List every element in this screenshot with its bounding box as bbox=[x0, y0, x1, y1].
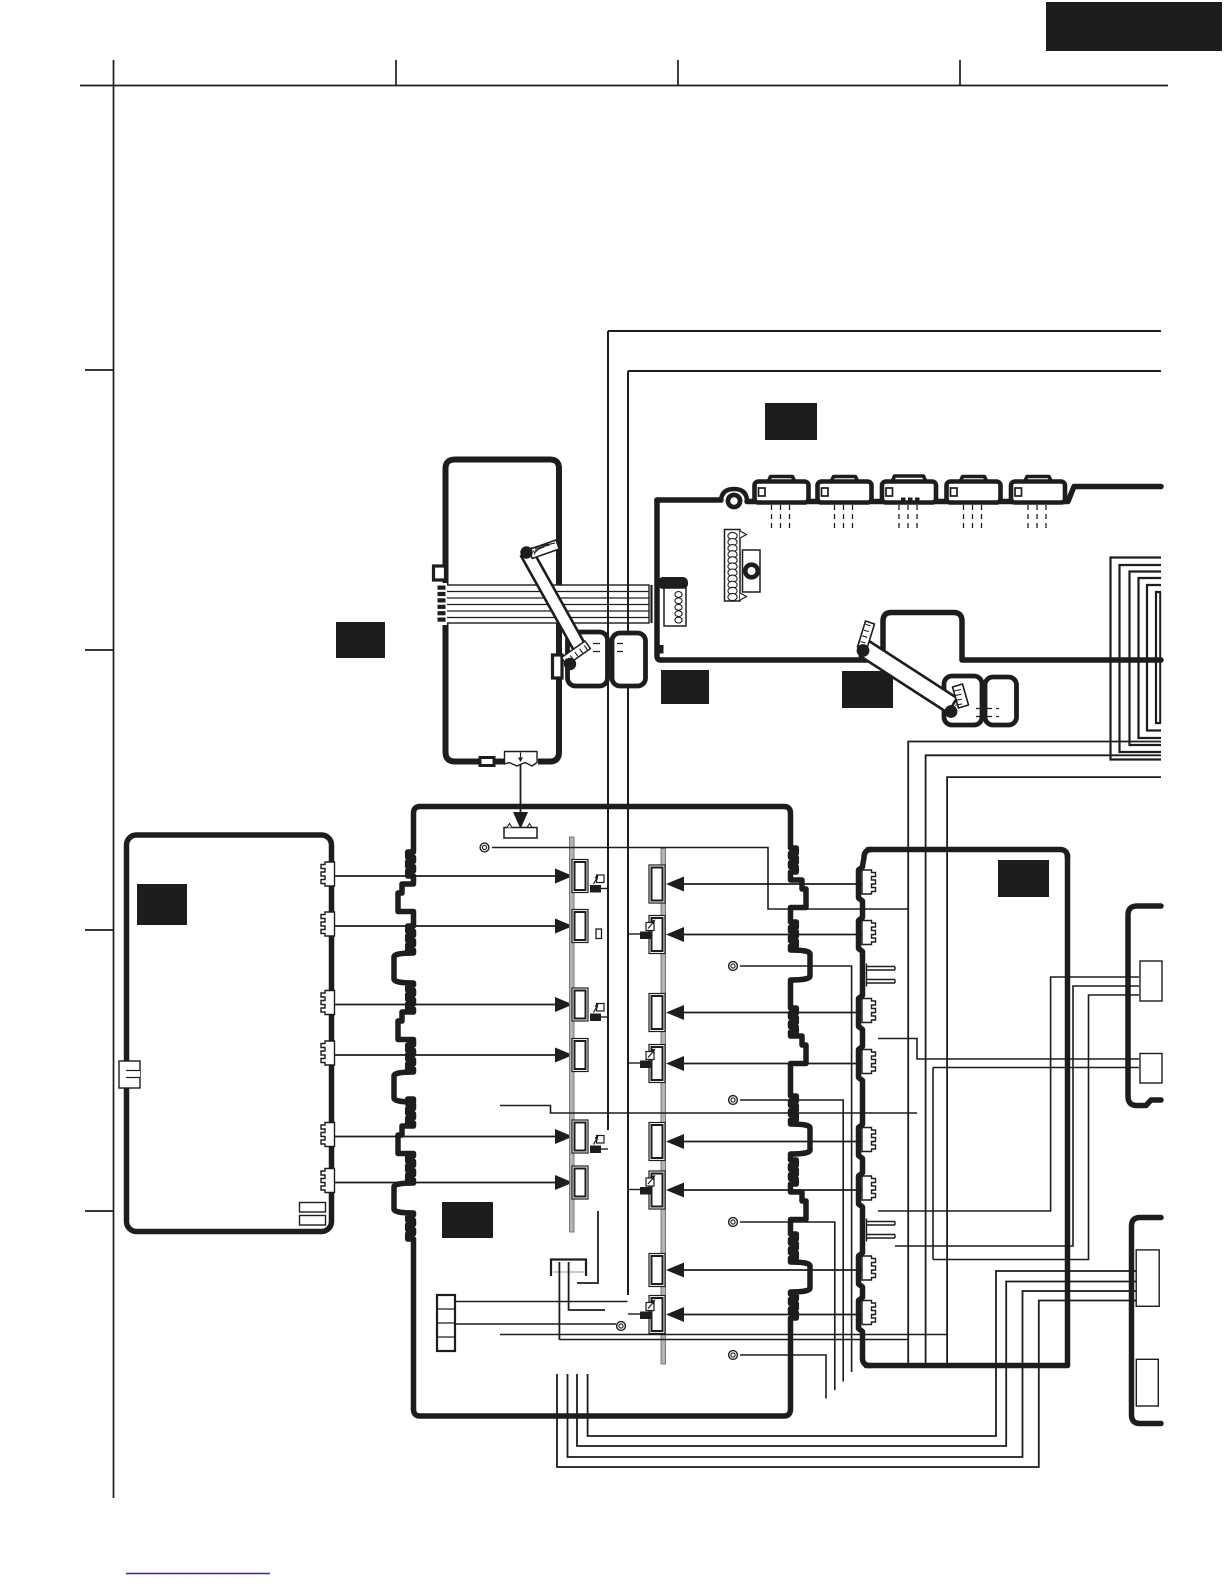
ribbon conductor 5 bbox=[442, 617, 650, 619]
top connector T2 key square bbox=[822, 488, 829, 496]
bottom bus wire 3 bbox=[568, 1291, 1137, 1457]
board B3 outline bbox=[414, 807, 811, 1417]
strap1 upper ladder rung 3 bbox=[535, 547, 544, 551]
arrow into column2 row 6 bbox=[666, 1183, 684, 1198]
B1 bottom-right connector bars bbox=[300, 1203, 326, 1213]
screw S6 bbox=[617, 1322, 626, 1331]
B3 top connector bbox=[504, 828, 537, 839]
top connector T1 pin dash 2 bbox=[780, 505, 782, 528]
board B4 right edge bbox=[866, 855, 1068, 1366]
column1 connector 6 bbox=[572, 1166, 588, 1199]
strap2 lower pivot dot bbox=[945, 705, 958, 718]
B2 CN bottom wedge bbox=[740, 593, 747, 600]
column2 connector 3 bbox=[649, 994, 665, 1032]
icon up-connector c2-1 bbox=[640, 932, 652, 940]
icon up-connector c2-3 bbox=[640, 1187, 652, 1195]
arrow into column2 row 5 bbox=[666, 1134, 684, 1149]
ribbon right terminator bbox=[650, 585, 652, 623]
icon up-connector c2-4 bbox=[640, 1312, 652, 1320]
strap2 upper ladder rung 3 bbox=[864, 630, 869, 632]
B6 tab A bbox=[1136, 1250, 1159, 1306]
wire B1-6 to column1 bbox=[335, 1182, 557, 1184]
B1 comb connector 1 bbox=[321, 862, 335, 886]
top connector T5 pin dash 1 bbox=[1027, 505, 1029, 528]
strap1 upper ladder rung 1 bbox=[534, 551, 536, 555]
wire from S3 bbox=[740, 1100, 843, 1382]
strap1 lower ladder rung 1 bbox=[566, 659, 569, 663]
B3 bottom staple connector bbox=[551, 1260, 586, 1277]
wire column2-1 to B4 bbox=[684, 883, 874, 885]
wire column2-2 to B4 bbox=[684, 934, 874, 936]
B5 tab1 wire b bbox=[895, 986, 1139, 1246]
strap2 upper ladder rung 4 bbox=[866, 624, 871, 626]
screw S1 bbox=[480, 843, 489, 852]
B4 comb connector 7 bbox=[862, 1256, 876, 1280]
pair A dashed link lower bbox=[593, 651, 623, 653]
board B0 right-edge notch bbox=[553, 655, 563, 678]
top connector T3 pin dash 2 bbox=[907, 505, 909, 528]
top connector T2 pin dash 3 bbox=[852, 505, 854, 528]
strap1 lower ladder rung 4 bbox=[580, 649, 583, 653]
strap2 lower ladder rung 2 bbox=[954, 694, 961, 696]
board B0 bottom tab cut bbox=[504, 748, 538, 765]
column2 connector 4 bbox=[649, 1045, 665, 1083]
B5 tab2 wire a bbox=[878, 1039, 1139, 1060]
coil bracket 2 bbox=[1120, 565, 1162, 752]
top connector T3 pin dash 3 bbox=[916, 505, 918, 528]
staple wire 2 bbox=[569, 1262, 605, 1310]
ribbon conductor 4 bbox=[442, 610, 650, 612]
column2 gray bar bbox=[661, 849, 666, 1365]
B4 prong connector 2 bbox=[867, 1219, 896, 1242]
staple wire 1 bbox=[558, 1262, 560, 1340]
B4 prong connector 1 bbox=[867, 964, 896, 987]
CN2 body bbox=[664, 588, 686, 626]
B4 comb connector 4 bbox=[862, 1050, 876, 1074]
board B2 bottom edge with tab bump bbox=[661, 613, 1161, 661]
B1 left bracket connector bbox=[119, 1061, 140, 1088]
top connector T4 key square bbox=[951, 488, 958, 496]
coil bracket 4 bbox=[1139, 578, 1162, 738]
board B0 bottom tab outline bbox=[505, 752, 538, 767]
bottom bus wire 1 bbox=[588, 1271, 1136, 1436]
long wire L2 bbox=[560, 1339, 908, 1341]
wire from B0 tab down to B3 bbox=[520, 764, 522, 812]
arrow into column2 row 4 bbox=[666, 1056, 684, 1071]
CN2 pins bbox=[675, 592, 682, 598]
B2 screw donut bbox=[743, 562, 760, 579]
board B6 outline bbox=[1132, 1218, 1162, 1424]
arrow into column1 row 1 bbox=[555, 869, 573, 884]
B4 comb connector 3 bbox=[862, 999, 876, 1023]
arrow into column2 row 1 bbox=[666, 877, 684, 892]
ribbon conductor 1 bbox=[442, 591, 650, 593]
board B3 left edge bbox=[394, 807, 420, 1410]
B4 comb connector 5 bbox=[862, 1128, 876, 1152]
strap2 upper ladder connector bbox=[858, 621, 875, 650]
B4 comb connector 6 bbox=[862, 1176, 876, 1200]
B4 comb connector 8 bbox=[862, 1301, 876, 1325]
top tick x=396 bbox=[395, 60, 397, 86]
wire column2-8 to B4 bbox=[684, 1314, 874, 1316]
board B2 top edge left bbox=[657, 497, 721, 503]
icon up-connector c1-2 bbox=[590, 1014, 601, 1022]
strap1 body bbox=[521, 549, 586, 654]
B2 CN top wedge bbox=[740, 531, 747, 538]
strap1 lower ladder rung 3 bbox=[575, 652, 578, 656]
strap1 upper pivot dot bbox=[520, 546, 532, 558]
wire column2-7 to B4 bbox=[684, 1269, 874, 1271]
top connector T2 pin dash 1 bbox=[834, 505, 836, 528]
left tick y=930 bbox=[85, 929, 114, 931]
top connector T5 hump bbox=[1025, 477, 1052, 483]
wire from S4 bbox=[740, 1222, 835, 1390]
top connector T1 hump inner bbox=[772, 480, 791, 482]
column2 connector 6 bbox=[649, 1171, 665, 1209]
strap2 upper ladder rung 2 bbox=[862, 636, 867, 638]
strap2 lower ladder rung 3 bbox=[955, 699, 962, 701]
B2 connector column CN body bbox=[725, 530, 741, 602]
bottom bus wire 2 bbox=[577, 1282, 1136, 1447]
top tick x=678 bbox=[677, 60, 679, 86]
B4 comb connector 2 bbox=[862, 921, 876, 945]
ribbon left pin block cut bbox=[436, 583, 447, 625]
column1 connector 4 bbox=[572, 1039, 588, 1072]
strap1 upper ladder rung 4 bbox=[535, 545, 550, 549]
black label box below B2 mid bbox=[842, 671, 893, 708]
wire 4pin-1 bbox=[455, 1301, 628, 1303]
left tick y=370 bbox=[85, 369, 114, 371]
board B4 left edge bbox=[859, 850, 873, 1366]
wire from S5 bbox=[740, 1355, 826, 1399]
arrow into column1 row 2 bbox=[555, 919, 573, 934]
strap1 lower ladder connector bbox=[562, 641, 591, 665]
black label box below B2 left bbox=[661, 670, 709, 704]
board B2 top edge under connectors bbox=[747, 487, 1161, 502]
black label box in B1 bbox=[137, 884, 187, 925]
arrow into column1 row 3 bbox=[555, 997, 573, 1012]
wire 4pin-2 bbox=[455, 1323, 616, 1325]
top connector T4 pin dash 2 bbox=[972, 505, 974, 528]
top connector T1 hump bbox=[768, 477, 795, 483]
strap1 lower ladder rung 5 bbox=[584, 646, 587, 650]
wire from S1 bbox=[492, 848, 908, 910]
top connector T5 key square bbox=[1015, 488, 1022, 496]
rounded square RSa bbox=[568, 632, 608, 686]
column1 connector 5 bbox=[572, 1120, 588, 1153]
ribbon left pin 2 bbox=[438, 592, 446, 596]
wire B1-3 to column1 bbox=[335, 1004, 557, 1006]
wire W2 vertical bbox=[627, 371, 629, 1295]
top connector T1 pin dash 1 bbox=[771, 505, 773, 528]
top connector T4 pin dash 3 bbox=[981, 505, 983, 528]
pair A dashed link upper bbox=[593, 643, 623, 645]
small mark near column1 row2 bbox=[596, 929, 602, 939]
coil bracket 3 bbox=[1130, 572, 1162, 746]
wire B1-4 to column1 bbox=[335, 1054, 557, 1056]
coil wire C bbox=[947, 777, 1161, 1363]
column1 connector 3 bbox=[572, 988, 588, 1021]
wire B1-1 to column1 bbox=[335, 875, 557, 877]
rounded square RS1 bbox=[944, 676, 982, 725]
coil bracket 1 bbox=[1111, 558, 1162, 760]
left tick y=1211 bbox=[85, 1210, 114, 1212]
ribbon conductor 3 bbox=[442, 604, 650, 606]
coil bracket innermost right edge bbox=[1159, 592, 1161, 723]
B5 tab 1 bbox=[1140, 961, 1162, 1001]
wire column2-6 to B4 bbox=[684, 1189, 874, 1191]
wire column2-5 to B4 bbox=[684, 1141, 874, 1143]
strap2 upper pivot dot bbox=[857, 644, 870, 657]
wire B1-5 to column1 bbox=[335, 1136, 557, 1138]
column1 connector 2 bbox=[572, 910, 588, 943]
ribbon conductor 2 bbox=[442, 597, 650, 599]
screw S4 bbox=[729, 1218, 738, 1227]
strap2 lower ladder rung 4 bbox=[955, 704, 962, 706]
B1 comb connector 2 bbox=[321, 912, 335, 936]
wire from S2 bbox=[740, 966, 852, 1372]
top connector T3 hump inner bbox=[897, 480, 921, 482]
board B0 left-edge notch upper bbox=[434, 566, 446, 580]
B2 connector column CN pins bbox=[728, 532, 737, 539]
B3 4pin connector bbox=[437, 1295, 455, 1351]
wire column2-3 to B4 bbox=[684, 1012, 874, 1014]
blue footer link line bbox=[126, 1573, 270, 1575]
strap2 lower ladder connector bbox=[953, 684, 969, 708]
top connector T3 nub 3 bbox=[915, 498, 920, 504]
B1 comb connector 6 bbox=[321, 1169, 335, 1193]
strap1 upper ladder connector bbox=[529, 540, 559, 559]
rounded square RSb bbox=[612, 633, 646, 686]
screw S2 bbox=[729, 962, 738, 971]
coil wire B bbox=[926, 755, 1161, 1363]
screw S5 bbox=[729, 1351, 738, 1360]
B6 tab B bbox=[1136, 1359, 1158, 1406]
board B0 outline bbox=[446, 460, 560, 762]
board B2 top edge washer arc bbox=[721, 489, 747, 500]
ribbon cable body bbox=[442, 585, 650, 623]
top connector T4 hump bbox=[960, 477, 987, 483]
B2 screw plate bbox=[743, 550, 761, 592]
board B2 left edge bbox=[657, 500, 661, 660]
long wire L1 bbox=[500, 1334, 947, 1336]
wire column2-4 to B4 bbox=[684, 1063, 874, 1065]
top connector T5 pin dash 3 bbox=[1045, 505, 1047, 528]
coil wire A bbox=[908, 742, 1161, 1364]
jog wire bbox=[500, 1106, 917, 1114]
rounded square RS2 bbox=[985, 677, 1017, 725]
top connector T3 nub 1 bbox=[901, 498, 906, 504]
board B5 outline bbox=[1128, 906, 1161, 1106]
strap2 lower ladder rung 1 bbox=[954, 690, 961, 692]
board B1 outline bbox=[127, 835, 332, 1232]
B1 comb connector 3 bbox=[321, 991, 335, 1015]
top connector T2 hump bbox=[831, 477, 858, 483]
arrow into column2 row 7 bbox=[666, 1263, 684, 1278]
strap1 upper ladder rung 2 bbox=[535, 549, 539, 553]
top connector T5 body bbox=[1011, 482, 1065, 503]
pair B dashed link upper bbox=[976, 708, 999, 710]
arrow into column2 row 8 bbox=[666, 1307, 684, 1322]
strap2 upper ladder rung 1 bbox=[861, 642, 866, 644]
column2 connector 2 bbox=[649, 916, 665, 954]
top connector T5 pin dash 2 bbox=[1036, 505, 1038, 528]
column2 connector 7 bbox=[649, 1254, 665, 1287]
strap2 body bbox=[860, 641, 957, 713]
top connector T2 pin dash 2 bbox=[843, 505, 845, 528]
arrow into column1 row 6 bbox=[555, 1175, 573, 1190]
top connector T5 hump inner bbox=[1029, 480, 1048, 482]
top connector T3 key square bbox=[886, 488, 893, 496]
top connector T3 body bbox=[882, 482, 936, 503]
black label box in B3 bbox=[442, 1202, 493, 1238]
board B2 bottom-left edge mark bbox=[657, 645, 664, 654]
screw S3 bbox=[729, 1096, 738, 1105]
board B0 tab arrow bbox=[520, 753, 522, 761]
B1 comb connector 5 bbox=[321, 1123, 335, 1147]
B3 top arrow bbox=[513, 812, 528, 829]
top connector T2 hump inner bbox=[835, 480, 854, 482]
top connector T3 hump bbox=[892, 476, 926, 482]
arrow into column2 row 2 bbox=[666, 927, 684, 942]
left tick y=650 bbox=[85, 649, 114, 651]
ribbon left pin 5 bbox=[438, 611, 446, 615]
top connector T4 body bbox=[947, 482, 1001, 503]
strap1 upper ladder rung 5 bbox=[535, 543, 555, 547]
board B4 top edge bbox=[868, 850, 1068, 858]
icon up-connector c1-3 bbox=[590, 1146, 601, 1154]
B5 tab1 wire a bbox=[878, 977, 1139, 1211]
arrow into column1 row 5 bbox=[555, 1129, 573, 1144]
ribbon left pin 1 bbox=[438, 586, 446, 590]
ribbon left pin 4 bbox=[438, 605, 446, 609]
black label box in B4 bbox=[998, 860, 1049, 897]
page frame vertical rule bbox=[113, 60, 115, 1498]
coil bracket 6 bbox=[1156, 592, 1161, 723]
column1 connector 1 bbox=[572, 860, 588, 893]
CN2 cap bar bbox=[658, 577, 688, 589]
bottom bus wire 4 bbox=[557, 1301, 1136, 1468]
board B0 bottom small jog bbox=[480, 758, 494, 766]
column2 connector 5 bbox=[649, 1123, 665, 1161]
B5 tab 2 bbox=[1140, 1054, 1162, 1084]
top connector T3 pin dash 1 bbox=[898, 505, 900, 528]
wire W1 horizontal bbox=[608, 330, 1161, 332]
top connector T3 nub 2 bbox=[908, 498, 913, 504]
icon up-connector c2-2 bbox=[640, 1061, 652, 1069]
pair B dashed link lower bbox=[976, 716, 999, 718]
top connector T1 body bbox=[755, 482, 809, 503]
B4 comb connector 1 bbox=[862, 870, 876, 894]
B1 comb connector 4 bbox=[321, 1041, 335, 1065]
black label box left of board B0 bbox=[336, 622, 385, 658]
top connector T4 hump inner bbox=[964, 480, 983, 482]
arrow into column1 row 4 bbox=[555, 1048, 573, 1063]
strap1 lower ladder rung 2 bbox=[570, 655, 573, 659]
icon up-connector c1-1 bbox=[590, 885, 601, 893]
top connector T2 body bbox=[818, 482, 872, 503]
column2 connector 1 bbox=[649, 865, 665, 903]
column2 connector 8 bbox=[649, 1296, 665, 1334]
top connector T1 key square bbox=[759, 488, 766, 496]
B5 tab1 wire c bbox=[933, 995, 1139, 1260]
top tick x=960 bbox=[959, 60, 961, 86]
strap1 lower pivot dot bbox=[564, 658, 576, 670]
wire W1 vertical bbox=[607, 331, 609, 1130]
arrow into column2 row 3 bbox=[666, 1005, 684, 1020]
board B2 screw washer bbox=[726, 493, 743, 510]
ribbon left pin 6 bbox=[438, 618, 446, 622]
wire B1-2 to column1 bbox=[335, 925, 557, 927]
black label box top-right bbox=[1046, 2, 1222, 51]
top connector T1 pin dash 3 bbox=[789, 505, 791, 528]
B5 tab2 wire b bbox=[933, 1068, 1139, 1260]
ribbon left pin 3 bbox=[438, 598, 446, 602]
page frame horizontal rule bbox=[80, 85, 1168, 87]
column1 gray bar bbox=[570, 837, 575, 1232]
top connector T4 pin dash 1 bbox=[963, 505, 965, 528]
coil bracket 5 bbox=[1147, 585, 1161, 731]
wire W2 horizontal bbox=[628, 370, 1161, 372]
staple wire 3 bbox=[577, 1211, 598, 1283]
black label box above board B2 bbox=[765, 403, 817, 440]
